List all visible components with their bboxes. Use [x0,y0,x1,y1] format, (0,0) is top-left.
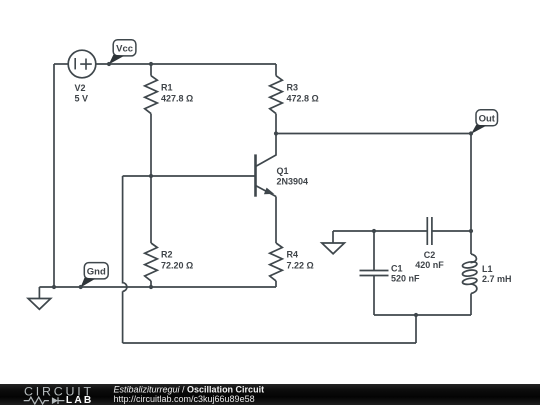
svg-text:Estibaliziturregui / Oscillati: Estibaliziturregui / Oscillation Circuit [114,384,265,394]
svg-text:LAB: LAB [66,395,94,405]
wire feedback vertical upper with hop over ground rail [123,176,127,291]
svg-text:7.22 Ω: 7.22 Ω [287,261,314,271]
wire ground rail [39,286,276,288]
inductor L1 [462,231,477,315]
svg-text:http://circuitlab.com/c3kuj66u: http://circuitlab.com/c3kuj66u89e58 [114,394,255,404]
capacitor C1 [360,231,389,315]
node dot collector [274,131,278,135]
capacitor C2 [427,217,432,245]
wire tank top right segment [432,230,471,232]
svg-text:R4: R4 [287,249,299,259]
resistor R1 [145,64,158,176]
resistor R4 [270,243,283,287]
wire Vcc rail right segment [96,63,276,65]
voltage source V2 [68,50,96,103]
svg-text:Q1: Q1 [277,166,289,176]
footer bar [0,384,540,405]
wire emitter to R4 [275,197,277,244]
svg-text:72.20 Ω: 72.20 Ω [161,261,193,271]
node dot left drop at rail [52,285,56,289]
wire collector rail to Out [276,133,471,135]
svg-text:Gnd: Gnd [87,266,106,277]
wire feedback riser to tank bottom [415,315,417,343]
svg-text:2.7 mH: 2.7 mH [482,274,512,284]
flag Vcc [109,40,136,65]
svg-text:R3: R3 [287,83,299,93]
node dot R2 bottom [149,285,153,289]
flag Gnd [81,263,109,288]
flag Out [471,110,497,134]
resistor R2 [145,176,158,287]
svg-text:5 V: 5 V [75,94,89,104]
svg-text:Vcc: Vcc [116,43,133,54]
svg-text:472.8 Ω: 472.8 Ω [287,93,319,103]
footer title text [114,384,265,404]
wire feedback vertical lower [122,291,124,343]
node dot Vcc tap [107,62,111,66]
svg-text:C1: C1 [391,264,403,274]
wire tank bottom [374,314,471,316]
svg-text:L1: L1 [482,264,493,274]
node dot Gnd tap [79,285,83,289]
wire Vcc rail left segment [54,63,68,65]
svg-text:427.8 Ω: 427.8 Ω [161,93,193,103]
wire tank top left segment [333,230,427,232]
node dot base junction [149,174,153,178]
ground symbol tank [322,231,345,254]
svg-text:V2: V2 [75,83,86,93]
resistor R3 [270,64,283,134]
node dot tank top right [469,229,473,233]
wire left drop from V2 to ground rail [53,64,55,287]
svg-text:520 nF: 520 nF [391,274,420,284]
node dot Out corner [469,131,473,135]
logo CircuitLab [24,384,94,405]
svg-text:2N3904: 2N3904 [277,176,309,186]
svg-text:C2: C2 [424,250,436,260]
svg-text:R1: R1 [161,83,173,93]
wire base wire [123,175,256,177]
svg-text:Out: Out [479,113,496,124]
ground symbol left [28,287,51,309]
svg-text:R2: R2 [161,249,173,259]
node dot tank bottom [414,313,418,317]
transistor Q1 [256,134,309,197]
node dot R1 top [149,62,153,66]
svg-text:420 nF: 420 nF [415,260,444,270]
node dot C1 top [372,229,376,233]
wire feedback bottom horizontal [123,342,416,344]
wire Out drop to tank [470,134,472,232]
